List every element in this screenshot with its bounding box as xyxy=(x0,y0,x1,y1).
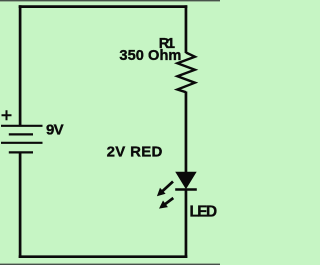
svg-text:350 Ohm: 350 Ohm xyxy=(119,48,181,64)
wire left upper (battery + terminal to top) xyxy=(19,5,22,126)
wire bottom xyxy=(19,255,188,258)
resistor R1 xyxy=(177,53,195,93)
top edge rule xyxy=(0,0,220,1)
battery B1 9V xyxy=(1,126,43,153)
svg-text:9V: 9V xyxy=(46,121,64,138)
label R1 xyxy=(159,36,175,52)
label 9V xyxy=(46,121,64,138)
battery plate short (bottom, -) xyxy=(9,151,33,153)
svg-text:2V RED: 2V RED xyxy=(107,144,163,161)
LED cathode bar xyxy=(175,188,197,190)
battery plate long xyxy=(1,142,43,144)
label 2V RED xyxy=(107,144,163,161)
bottom edge rule xyxy=(0,263,220,264)
wire right upper (top to resistor) xyxy=(185,5,188,53)
battery plate short xyxy=(9,133,33,135)
svg-text:LED: LED xyxy=(190,203,218,220)
label LED xyxy=(190,203,218,220)
wire left lower (battery - terminal to bottom) xyxy=(19,152,22,258)
battery positive sign xyxy=(2,110,12,120)
LED light arrow 1 xyxy=(157,182,173,197)
battery plate long (top, +) xyxy=(1,125,43,127)
wire top xyxy=(19,5,188,8)
LED D1 xyxy=(175,172,197,189)
label 350 Ohm xyxy=(119,48,181,64)
wire right middle (resistor to LED) xyxy=(185,92,188,174)
LED light arrow 2 xyxy=(159,198,173,209)
LED anode triangle xyxy=(176,172,195,188)
wire right lower (LED to bottom) xyxy=(185,190,188,258)
